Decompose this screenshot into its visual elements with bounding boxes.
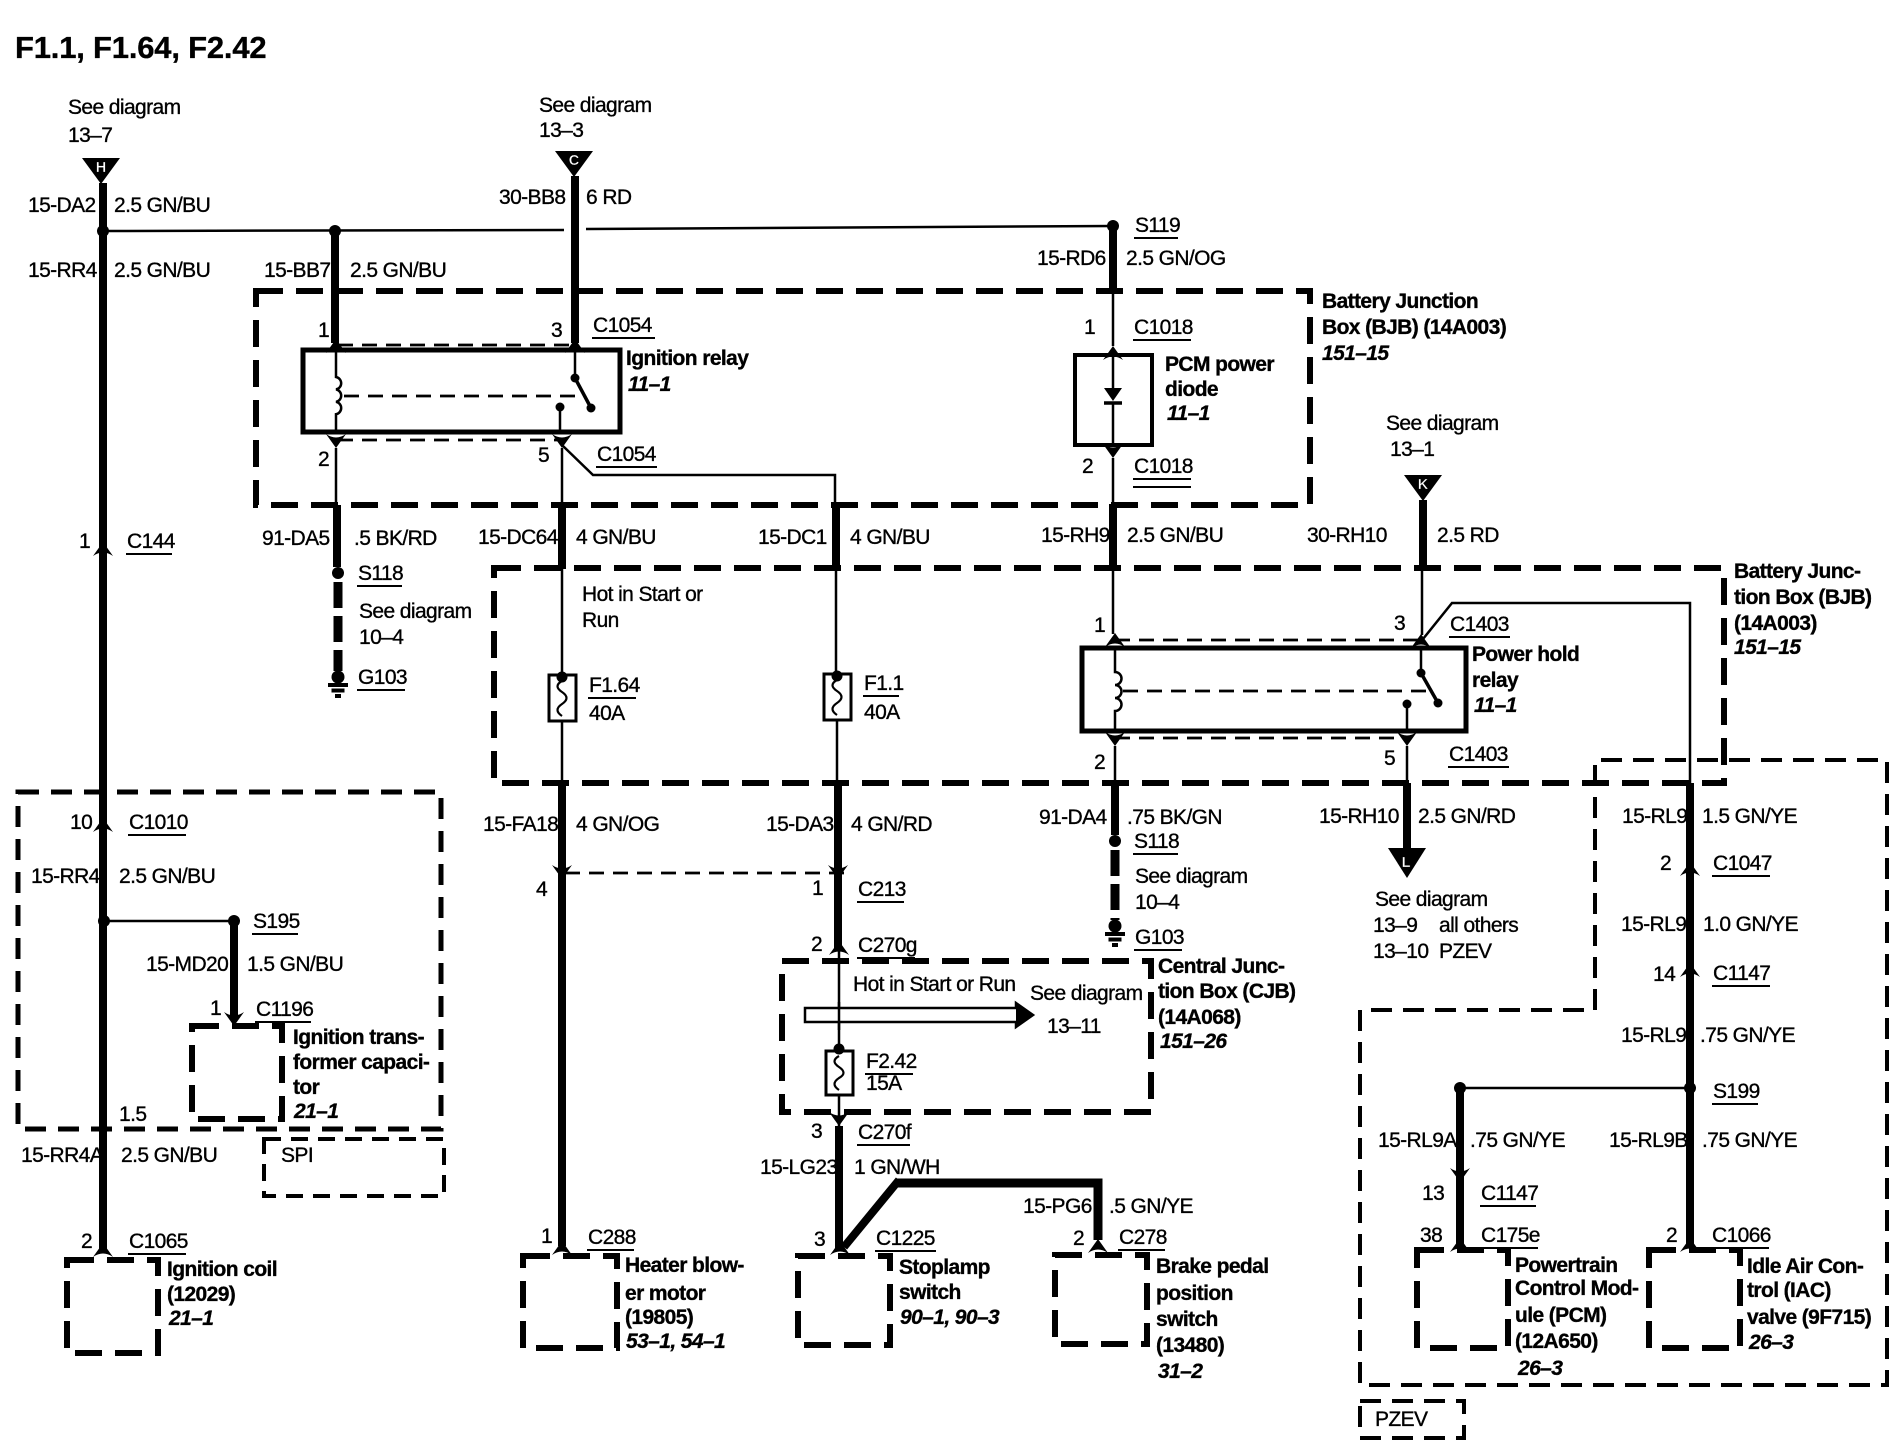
svg-text:2.5 GN/RD: 2.5 GN/RD (1418, 805, 1516, 828)
svg-text:15-PG6: 15-PG6 (1023, 1195, 1092, 1218)
wire C1403 leader to 15-RL9 (1423, 603, 1690, 783)
svg-text:2: 2 (318, 448, 329, 471)
svg-text:4 GN/BU: 4 GN/BU (850, 526, 930, 549)
svg-text:Heater blow-: Heater blow- (625, 1254, 744, 1277)
svg-text:C1047: C1047 (1713, 852, 1772, 875)
connector triangle H (see diagram 13-7) (82, 158, 120, 184)
svg-text:Ignition coil: Ignition coil (167, 1258, 277, 1281)
stoplamp switch box (798, 1256, 890, 1345)
wire 15-MD20 (230, 921, 238, 1016)
wire 15-RL9 (1686, 783, 1694, 1248)
svg-text:switch: switch (1156, 1308, 1218, 1331)
svg-text:C270f: C270f (858, 1121, 912, 1144)
svg-text:G103: G103 (1135, 926, 1184, 949)
svg-text:13–1: 13–1 (1390, 438, 1434, 461)
svg-text:all others: all others (1439, 914, 1518, 937)
power hold relay box (1082, 648, 1466, 731)
svg-text:15-RR4: 15-RR4 (28, 259, 98, 282)
connector C1147 pin 14 arrow (1680, 963, 1700, 977)
wire C1054 leader to 15-DC1 (563, 446, 835, 503)
svg-text:91-DA4: 91-DA4 (1039, 806, 1108, 829)
svg-text:26–3: 26–3 (1517, 1357, 1563, 1380)
ground G103 left (328, 671, 348, 697)
svg-text:See diagram: See diagram (539, 94, 652, 117)
svg-text:C1054: C1054 (593, 314, 653, 337)
svg-text:Central Junc-: Central Junc- (1158, 955, 1285, 978)
svg-text:5: 5 (538, 444, 549, 467)
svg-text:40A: 40A (589, 702, 625, 725)
svg-text:1.5: 1.5 (119, 1103, 146, 1126)
svg-text:tor: tor (293, 1076, 320, 1099)
svg-text:11–1: 11–1 (1474, 694, 1517, 717)
power hold relay pin arrows C1403 (1105, 633, 1431, 746)
svg-text:14: 14 (1653, 963, 1676, 986)
svg-text:See diagram: See diagram (1386, 412, 1499, 435)
svg-text:1: 1 (210, 997, 221, 1020)
svg-text:(14A003): (14A003) (1734, 612, 1817, 635)
svg-text:38: 38 (1420, 1224, 1442, 1247)
svg-text:1: 1 (318, 319, 329, 342)
svg-text:(19805): (19805) (625, 1306, 693, 1329)
svg-text:S118: S118 (1134, 830, 1179, 853)
connector C1066 pin 2 arrow (1680, 1238, 1700, 1252)
svg-text:2: 2 (1082, 455, 1093, 478)
ignition coil (12029) box (67, 1260, 158, 1353)
svg-text:See diagram: See diagram (1030, 982, 1143, 1005)
svg-text:F1.1: F1.1 (864, 672, 904, 695)
PZEV label box (1360, 1401, 1464, 1438)
svg-text:tion Box (BJB): tion Box (BJB) (1734, 586, 1871, 609)
svg-text:4 GN/OG: 4 GN/OG (576, 813, 659, 836)
svg-text:2.5 GN/BU: 2.5 GN/BU (121, 1144, 217, 1167)
connector C1047 pin 2 arrow (1680, 862, 1700, 876)
PCM power diode pin arrows C1018 (1103, 346, 1123, 458)
svg-text:3: 3 (814, 1228, 825, 1251)
wire 15-DA2 / 15-RR4 / 15-RR4A main vertical (99, 183, 107, 1250)
svg-text:Battery Junc-: Battery Junc- (1734, 560, 1861, 583)
svg-text:90–1, 90–3: 90–1, 90–3 (900, 1306, 1000, 1329)
svg-text:.5 GN/YE: .5 GN/YE (1109, 1195, 1193, 1218)
power hold relay switch (1403, 648, 1443, 731)
connector C1010 pin 10 arrow (93, 818, 113, 832)
svg-text:.75 GN/YE: .75 GN/YE (1470, 1129, 1566, 1152)
svg-text:15-DA2: 15-DA2 (28, 194, 96, 217)
splice S118 left (332, 567, 344, 579)
svg-text:15-RL9: 15-RL9 (1621, 1024, 1686, 1047)
wire 91-DA4 (1114, 746, 1117, 835)
svg-text:40A: 40A (864, 701, 900, 724)
svg-text:4: 4 (536, 878, 548, 901)
svg-text:26–3: 26–3 (1748, 1331, 1794, 1354)
Central Junction Box CJB dashed box (782, 961, 1151, 1112)
svg-text:1: 1 (79, 530, 90, 553)
svg-text:13–11: 13–11 (1047, 1015, 1101, 1038)
svg-text:Hot in Start or Run: Hot in Start or Run (853, 973, 1016, 996)
svg-text:2.5 GN/BU: 2.5 GN/BU (114, 194, 210, 217)
svg-text:5: 5 (1384, 747, 1395, 770)
svg-text:15-BB7: 15-BB7 (264, 259, 330, 282)
connector triangle C (see diagram 13-3) (555, 151, 593, 177)
svg-text:15-RH10: 15-RH10 (1319, 805, 1399, 828)
connector C213 dashed line with pin 4 and pin 1 arrows (552, 865, 849, 879)
wire 15-DA3 over feed arrow (838, 1002, 841, 1030)
svg-text:C213: C213 (858, 878, 906, 901)
svg-text:C1403: C1403 (1449, 743, 1508, 766)
svg-text:Run: Run (582, 609, 619, 632)
wire 15-RD6 (1107, 220, 1119, 346)
ignition relay internal dashed link (344, 395, 583, 398)
svg-text:(12029): (12029) (167, 1283, 235, 1306)
svg-text:30-RH10: 30-RH10 (1307, 524, 1387, 547)
wire 15-DC64 inside BJB2 (561, 569, 564, 783)
svg-text:13–9: 13–9 (1373, 914, 1417, 937)
svg-text:Battery Junction: Battery Junction (1322, 290, 1478, 313)
svg-text:S199: S199 (1713, 1080, 1760, 1103)
svg-text:15-RL9: 15-RL9 (1621, 913, 1686, 936)
svg-text:C288: C288 (588, 1226, 636, 1249)
svg-text:2: 2 (1094, 751, 1105, 774)
svg-text:1: 1 (1094, 614, 1105, 637)
wire 15-LG23 (835, 1126, 843, 1248)
svg-text:.75 GN/YE: .75 GN/YE (1702, 1129, 1798, 1152)
svg-text:PZEV: PZEV (1375, 1408, 1428, 1431)
svg-text:Control Mod-: Control Mod- (1515, 1277, 1639, 1300)
svg-text:10: 10 (70, 811, 92, 834)
svg-text:Ignition trans-: Ignition trans- (293, 1026, 425, 1049)
svg-text:Power hold: Power hold (1472, 643, 1579, 666)
svg-text:C1403: C1403 (1450, 613, 1509, 636)
svg-text:4 GN/BU: 4 GN/BU (576, 526, 656, 549)
svg-text:PCM power: PCM power (1165, 353, 1274, 376)
ignition coil assembly dashed box (18, 792, 441, 1129)
Battery Junction Box BJB2 dashed box (494, 568, 1724, 783)
ignition transformer capacitor box (192, 1026, 282, 1119)
svg-text:15-RR4: 15-RR4 (31, 865, 101, 888)
svg-text:2: 2 (1666, 1224, 1677, 1247)
svg-text:91-DA5: 91-DA5 (262, 527, 330, 550)
svg-text:.75 BK/GN: .75 BK/GN (1127, 806, 1222, 829)
svg-text:S195: S195 (253, 910, 300, 933)
brake pedal position switch (13480) box (1055, 1255, 1147, 1344)
svg-text:F2.42: F2.42 (866, 1050, 917, 1073)
svg-text:2.5 GN/BU: 2.5 GN/BU (114, 259, 210, 282)
svg-text:31–2: 31–2 (1158, 1360, 1203, 1383)
PCM power diode box (1075, 355, 1152, 445)
connector C270g pin 2 arrow (829, 941, 849, 955)
svg-text:2: 2 (81, 1230, 92, 1253)
svg-text:15-LG23: 15-LG23 (760, 1156, 838, 1179)
svg-text:switch: switch (899, 1281, 961, 1304)
svg-text:C1066: C1066 (1712, 1224, 1771, 1247)
svg-text:L: L (1402, 855, 1411, 871)
powertrain control module PCM box (1417, 1250, 1508, 1348)
svg-text:Idle Air Con-: Idle Air Con- (1747, 1255, 1864, 1278)
svg-text:13–10: 13–10 (1373, 940, 1428, 963)
ignition relay switch (556, 350, 596, 432)
svg-text:See diagram: See diagram (1135, 865, 1248, 888)
svg-text:former capaci-: former capaci- (293, 1051, 430, 1074)
svg-text:C144: C144 (127, 530, 176, 553)
svg-text:PZEV: PZEV (1439, 940, 1492, 963)
splice S199 junction and link wire (1454, 1082, 1696, 1094)
PZEV group outer dashed box (1360, 760, 1887, 1385)
svg-text:Box (BJB) (14A003): Box (BJB) (14A003) (1322, 316, 1506, 339)
wire 15-RL9A (1456, 1088, 1464, 1248)
node H junction with bus line (97, 225, 1113, 237)
svg-text:C1018: C1018 (1134, 316, 1193, 339)
svg-text:15-DA3: 15-DA3 (766, 813, 834, 836)
svg-text:13–7: 13–7 (68, 124, 112, 147)
svg-text:H: H (96, 160, 106, 176)
idle air control IAC valve box (1649, 1250, 1740, 1348)
svg-text:(13480): (13480) (1156, 1334, 1224, 1357)
wire 30-BB8 (571, 176, 579, 343)
svg-text:53–1, 54–1: 53–1, 54–1 (626, 1330, 725, 1353)
connector C1196 pin 1 arrow (224, 1012, 244, 1026)
hot in start or run feed arrow (805, 1003, 1033, 1027)
svg-text:valve (9F715): valve (9F715) (1747, 1306, 1871, 1329)
wire 91-DA5 (336, 448, 337, 567)
fuse F1.1 40A (824, 671, 851, 721)
svg-text:1: 1 (812, 877, 823, 900)
wire 15-RH10 (1406, 746, 1409, 850)
svg-text:2.5 GN/BU: 2.5 GN/BU (119, 865, 215, 888)
svg-text:Hot in Start or: Hot in Start or (582, 583, 703, 606)
svg-text:tion Box (CJB): tion Box (CJB) (1158, 980, 1295, 1003)
svg-text:relay: relay (1472, 669, 1519, 692)
wire 15-BB7 (331, 231, 339, 343)
svg-text:C: C (569, 153, 580, 169)
svg-text:1: 1 (1084, 316, 1095, 339)
svg-text:4 GN/RD: 4 GN/RD (851, 813, 932, 836)
svg-text:3: 3 (551, 319, 562, 342)
svg-text:See diagram: See diagram (68, 96, 181, 119)
svg-text:Powertrain: Powertrain (1515, 1254, 1618, 1277)
wire 15-RH9 (1112, 458, 1115, 634)
svg-text:10–4: 10–4 (1135, 891, 1180, 914)
svg-text:C1065: C1065 (129, 1230, 188, 1253)
connector C1054 dashed pin lines (338, 345, 575, 440)
svg-text:.75 GN/YE: .75 GN/YE (1700, 1024, 1796, 1047)
wire 91-DA5 dashed to ground (334, 582, 343, 671)
svg-text:13: 13 (1422, 1182, 1444, 1205)
splice S195 junction and link wire (98, 915, 240, 927)
svg-text:15-FA18: 15-FA18 (483, 813, 558, 836)
svg-text:F1.1, F1.64, F2.42: F1.1, F1.64, F2.42 (15, 30, 266, 65)
svg-text:C175e: C175e (1481, 1224, 1540, 1247)
wire 15-DC64 upper (561, 448, 564, 569)
svg-text:1: 1 (541, 1225, 552, 1248)
svg-text:C1196: C1196 (256, 998, 313, 1021)
splice S118 right (1109, 835, 1121, 847)
connector C175e pin 38 arrow (1450, 1238, 1470, 1252)
Battery Junction Box BJB1 dashed box (256, 291, 1310, 505)
svg-text:(12A650): (12A650) (1515, 1330, 1598, 1353)
svg-text:2: 2 (811, 933, 822, 956)
connector C1065 pin 2 arrow (93, 1243, 113, 1257)
svg-text:21–1: 21–1 (168, 1307, 213, 1330)
SPI box (264, 1139, 444, 1196)
svg-text:C1054: C1054 (597, 443, 657, 466)
svg-text:Stoplamp: Stoplamp (899, 1256, 990, 1279)
svg-text:1.5 GN/YE: 1.5 GN/YE (1702, 805, 1798, 828)
svg-text:.5 BK/RD: .5 BK/RD (354, 527, 437, 550)
ignition relay box (303, 350, 620, 432)
svg-text:2.5 GN/BU: 2.5 GN/BU (1127, 524, 1223, 547)
svg-text:S119: S119 (1135, 214, 1180, 237)
svg-text:15A: 15A (866, 1072, 902, 1095)
svg-text:C278: C278 (1119, 1226, 1167, 1249)
power hold relay coil (1115, 648, 1122, 731)
connector C288 pin 1 arrow (552, 1241, 572, 1255)
svg-text:1 GN/WH: 1 GN/WH (854, 1156, 940, 1179)
svg-text:15-RD6: 15-RD6 (1037, 247, 1106, 270)
connector triangle K (see diagram 13-1) (1404, 475, 1442, 501)
svg-text:15-RH9: 15-RH9 (1041, 524, 1110, 547)
svg-text:13–3: 13–3 (539, 119, 583, 142)
svg-text:15-RR4A: 15-RR4A (21, 1144, 104, 1167)
svg-text:21–1: 21–1 (293, 1100, 338, 1123)
wire 15-DC1 upper (832, 503, 840, 569)
svg-text:2.5 RD: 2.5 RD (1437, 524, 1499, 547)
svg-text:K: K (1418, 477, 1429, 493)
svg-text:2.5 GN/BU: 2.5 GN/BU (350, 259, 446, 282)
wire 30-RH10 (1422, 500, 1423, 635)
connector C1403 dashed pin lines (1115, 640, 1421, 738)
svg-text:See diagram: See diagram (1375, 888, 1488, 911)
svg-text:F1.64: F1.64 (589, 674, 641, 697)
fuse F1.64 40A (549, 672, 576, 722)
wire 15-FA18 (558, 783, 566, 1246)
svg-text:C270g: C270g (858, 934, 917, 957)
svg-text:diode: diode (1165, 378, 1218, 401)
ground G103 right (1105, 920, 1125, 946)
wire 15-DC1 inside BJB2 (836, 569, 837, 783)
svg-text:15-DC1: 15-DC1 (758, 526, 827, 549)
heater blower motor (19805) box (523, 1256, 617, 1348)
diode symbol (1104, 355, 1122, 445)
connector C1147 pin 13 arrow (1450, 1168, 1470, 1182)
connector C278 pin 2 arrow (1088, 1239, 1108, 1253)
wire inside CJB to fuse F2.42 (838, 950, 841, 1126)
svg-text:11–1: 11–1 (1167, 402, 1210, 425)
svg-text:2: 2 (1073, 1227, 1084, 1250)
connector C270f pin 3 arrow (829, 1112, 849, 1126)
svg-text:SPI: SPI (281, 1144, 313, 1167)
svg-text:1.0 GN/YE: 1.0 GN/YE (1703, 913, 1799, 936)
svg-text:er motor: er motor (625, 1282, 706, 1305)
svg-text:(14A068): (14A068) (1158, 1006, 1241, 1029)
svg-text:3: 3 (811, 1120, 822, 1143)
svg-text:11–1: 11–1 (628, 373, 671, 396)
wire 91-DA4 dashed to ground (1111, 850, 1120, 920)
connector C1225 pin 3 arrow (830, 1241, 850, 1255)
svg-text:151–15: 151–15 (1322, 342, 1389, 365)
svg-text:ule (PCM): ule (PCM) (1515, 1304, 1606, 1327)
svg-text:C1018: C1018 (1134, 455, 1193, 478)
svg-text:10–4: 10–4 (359, 626, 404, 649)
svg-text:C1147: C1147 (1713, 962, 1770, 985)
svg-text:6 RD: 6 RD (586, 186, 632, 209)
svg-text:C1010: C1010 (129, 811, 188, 834)
svg-text:Brake pedal: Brake pedal (1156, 1255, 1268, 1278)
svg-text:3: 3 (1394, 612, 1405, 635)
svg-text:C1225: C1225 (876, 1227, 935, 1250)
svg-text:2: 2 (1660, 852, 1671, 875)
svg-text:151–26: 151–26 (1160, 1030, 1227, 1053)
svg-text:15-RL9A: 15-RL9A (1378, 1129, 1457, 1152)
svg-text:15-RL9B: 15-RL9B (1609, 1129, 1688, 1152)
svg-text:1.5 GN/BU: 1.5 GN/BU (247, 953, 343, 976)
wire 15-PG6 branch (844, 1180, 1098, 1247)
wire 15-DA3 (834, 783, 842, 950)
svg-text:See diagram: See diagram (359, 600, 472, 623)
power hold relay internal dashed link (1123, 690, 1430, 693)
connector C144 pin 1 arrow (93, 542, 113, 556)
svg-text:trol (IAC): trol (IAC) (1747, 1279, 1831, 1302)
svg-text:position: position (1156, 1282, 1233, 1305)
svg-text:15-MD20: 15-MD20 (146, 953, 228, 976)
svg-text:2.5 GN/OG: 2.5 GN/OG (1126, 247, 1226, 270)
svg-text:G103: G103 (358, 666, 407, 689)
svg-text:Ignition relay: Ignition relay (626, 347, 749, 370)
svg-text:S118: S118 (358, 562, 403, 585)
ignition relay pin arrows C1054 1,3,2,5 (326, 339, 585, 448)
svg-text:C1147: C1147 (1481, 1182, 1538, 1205)
svg-text:151–15: 151–15 (1734, 636, 1801, 659)
connector triangle L (see diagram 13-9/13-10) (1388, 848, 1426, 878)
svg-text:15-DC64: 15-DC64 (478, 526, 559, 549)
fuse F2.42 15A (826, 1044, 853, 1096)
svg-text:30-BB8: 30-BB8 (499, 186, 565, 209)
ignition relay coil (336, 350, 341, 432)
svg-text:15-RL9: 15-RL9 (1622, 805, 1687, 828)
